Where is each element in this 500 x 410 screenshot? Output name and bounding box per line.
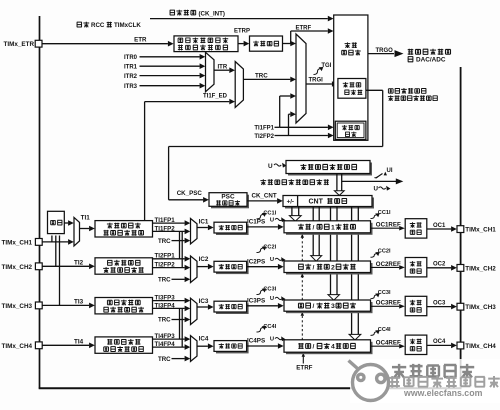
- block CNT counter: [285, 198, 374, 209]
- svg-text:U: U: [270, 296, 274, 302]
- svg-text:IC2: IC2: [199, 256, 209, 263]
- svg-text:RCC: RCC: [91, 22, 105, 29]
- wire CK_INT into trigger controller: [150, 18, 328, 20]
- mux trigger input selector: [296, 34, 306, 123]
- svg-text:TIMx_CH3: TIMx_CH3: [2, 303, 33, 310]
- svg-text:U: U: [270, 257, 274, 263]
- label to other timers: [408, 49, 414, 55]
- wire XOR inputs from CH1 CH2 CH3: [51, 236, 53, 242]
- pin TIMx_CH2 output: [457, 265, 464, 272]
- svg-text:IC1: IC1: [199, 218, 209, 225]
- svg-text:IC1PS: IC1PS: [247, 219, 265, 226]
- mux ITR selector: [206, 52, 215, 91]
- svg-text:IC3: IC3: [199, 298, 209, 305]
- svg-text:(CK_INT): (CK_INT): [199, 10, 225, 17]
- wire ETRF into trigger mux: [289, 43, 291, 45]
- svg-text:TIMx_CH1: TIMx_CH1: [465, 227, 496, 234]
- block output control 2: [405, 258, 427, 277]
- svg-text:OC4REF: OC4REF: [376, 340, 401, 347]
- wire ETRF into CCR4: [302, 356, 304, 363]
- block IC3 prescaler: [216, 303, 249, 314]
- mux TRC selector: [235, 62, 243, 108]
- svg-text:/: /: [313, 303, 315, 310]
- block input filter and edge detector channel 3: [95, 298, 153, 314]
- svg-text:OC2REF: OC2REF: [376, 261, 401, 268]
- wire CH1 direct to mux: [42, 241, 68, 243]
- block encoder interface U3: [335, 121, 366, 139]
- svg-text:TI1F_ED: TI1F_ED: [203, 94, 228, 100]
- svg-text:4: 4: [331, 344, 335, 351]
- svg-text:UI: UI: [387, 168, 393, 174]
- svg-text:TIMx_CH1: TIMx_CH1: [2, 239, 33, 246]
- block capture compare register 3: [286, 302, 373, 313]
- svg-text:ITR2: ITR2: [124, 74, 138, 80]
- svg-text:TRC: TRC: [158, 238, 171, 245]
- svg-text:ITR1: ITR1: [124, 65, 138, 71]
- svg-text:TRC: TRC: [158, 277, 171, 284]
- label reset enable up down count: [388, 89, 393, 93]
- svg-text:TIMx_ETR: TIMx_ETR: [4, 41, 35, 48]
- block capture compare register 4: [286, 342, 373, 354]
- watermark elecfans logo circle: [349, 361, 389, 401]
- svg-text:IC4PS: IC4PS: [247, 338, 265, 345]
- svg-text:/: /: [313, 224, 315, 231]
- label stop clear up down: [260, 179, 266, 185]
- block IC2 prescaler: [216, 263, 249, 274]
- svg-text:TIMx_CH2: TIMx_CH2: [465, 265, 496, 272]
- svg-text:IC3PS: IC3PS: [247, 297, 265, 304]
- watermark overlay text: [389, 376, 400, 388]
- watermark brand text: [392, 364, 406, 378]
- svg-text:TIMx_CH4: TIMx_CH4: [465, 343, 496, 350]
- svg-text:ETRF: ETRF: [296, 364, 312, 371]
- block XOR gate: [48, 211, 65, 233]
- svg-text:TI1FP1: TI1FP1: [254, 126, 274, 132]
- wire ETRF net: [283, 43, 291, 45]
- svg-text:TIMx_CH4: TIMx_CH4: [2, 343, 33, 350]
- wire dashed compare feedback CCR2 to CCR1: [301, 238, 303, 262]
- svg-text:OC3: OC3: [433, 300, 446, 306]
- svg-text:1: 1: [331, 224, 335, 231]
- svg-text:TI4: TI4: [74, 338, 84, 345]
- svg-text:ITR: ITR: [218, 64, 228, 70]
- svg-text:TRC: TRC: [255, 72, 268, 79]
- svg-text:CK_PSC: CK_PSC: [177, 190, 203, 197]
- svg-text:ITR3: ITR3: [124, 84, 138, 90]
- block IC1 prescaler: [216, 224, 249, 235]
- block polarity selection edge detector prescaler: [174, 36, 238, 52]
- block input filter and edge detector channel 1: [95, 221, 153, 237]
- svg-text:U: U: [374, 186, 379, 193]
- wire TI1F_ED: [144, 102, 146, 221]
- svg-text:TI2: TI2: [74, 259, 84, 266]
- block input filter and edge detector channel 2: [95, 258, 153, 274]
- wire ARR to CNT hollow arrow: [336, 174, 338, 191]
- pin TIMx_CH1 output: [457, 226, 464, 233]
- block trigger controller U1: [334, 15, 368, 140]
- svg-text:TI2FP2: TI2FP2: [254, 134, 274, 140]
- svg-text:TGI: TGI: [321, 63, 331, 69]
- mux IC4 input selector: [191, 336, 198, 362]
- wire bottom frame rail: [39, 387, 462, 389]
- wire crossover TI3FP4 TI4FP3 between rows 3-4: [179, 308, 181, 339]
- block output control 3: [405, 296, 427, 315]
- label TIMxCLK from RCC: [77, 22, 82, 27]
- svg-text:IC2PS: IC2PS: [247, 258, 265, 265]
- mux IC2 input selector: [191, 256, 198, 283]
- svg-text:OC1: OC1: [433, 223, 446, 229]
- svg-text:TIMx_CH2: TIMx_CH2: [2, 264, 33, 271]
- svg-text:ITR0: ITR0: [124, 55, 138, 61]
- block slave mode controller U2: [338, 79, 366, 99]
- block PSC prescaler: [211, 195, 249, 209]
- svg-text:U: U: [270, 336, 274, 342]
- svg-text:ETRP: ETRP: [234, 29, 250, 35]
- svg-text:TI1: TI1: [81, 215, 91, 222]
- svg-text:U: U: [268, 163, 273, 170]
- svg-text:/: /: [313, 264, 315, 271]
- wire crossover TI1FP2 TI2FP1 between rows 1-2: [179, 231, 181, 258]
- block output control 4: [405, 335, 427, 354]
- svg-text:DAC/ADC: DAC/ADC: [416, 57, 446, 64]
- label to DAC ADC: [408, 57, 413, 62]
- svg-text:TIMxCLK: TIMxCLK: [114, 22, 141, 29]
- wire CNT to CCR3 hollow arrow: [330, 207, 332, 295]
- watermark white backing: [350, 359, 500, 403]
- svg-text:U: U: [270, 217, 274, 223]
- wire CNT to CCR1 hollow arrow: [291, 207, 293, 216]
- svg-text:CC3I: CC3I: [378, 290, 391, 296]
- wire CNT to CCR2 hollow arrow: [312, 207, 314, 256]
- mux IC1 input selector: [191, 219, 198, 244]
- pin TIMx_CH4 output: [457, 342, 464, 349]
- svg-text:OC4: OC4: [433, 339, 446, 345]
- wire dashed compare feedback CCR4 to CCR3: [301, 316, 303, 341]
- svg-text:TRGI: TRGI: [309, 77, 324, 83]
- wire XOR output to mux: [64, 222, 68, 224]
- svg-text:+/-: +/-: [287, 199, 294, 206]
- block capture compare register 1: [286, 223, 373, 235]
- svg-text:PSC: PSC: [221, 193, 235, 200]
- mux IC3 input selector: [191, 298, 198, 324]
- svg-text:/: /: [313, 344, 315, 351]
- svg-text:CC2I: CC2I: [378, 249, 391, 255]
- svg-text:CNT: CNT: [309, 199, 324, 206]
- svg-text:www.elecfans.com: www.elecfans.com: [403, 388, 483, 398]
- svg-text:OC3REF: OC3REF: [376, 300, 401, 307]
- wire U event right arrow: [342, 180, 397, 182]
- wire CNT to CCR4 hollow arrow: [351, 207, 353, 335]
- svg-text:IC4: IC4: [199, 335, 209, 342]
- svg-text:TRC: TRC: [158, 317, 171, 324]
- wire left frame rail: [39, 16, 41, 389]
- pin TIMx_CH3 output: [457, 303, 464, 310]
- wire CK path from slave controller to PSC: [169, 146, 383, 148]
- wire slave controller output to clock path: [366, 89, 383, 91]
- wire right frame rail: [460, 67, 462, 388]
- svg-text:OC1REF: OC1REF: [376, 222, 401, 229]
- block auto-reload register: [288, 163, 372, 176]
- svg-text:CK_CNT: CK_CNT: [252, 193, 277, 200]
- svg-text:CC4I: CC4I: [378, 327, 391, 333]
- svg-text:TIMx_CH3: TIMx_CH3: [465, 304, 496, 311]
- label internal clock CK_INT: [170, 10, 175, 15]
- block input filter and edge detector channel 4: [95, 337, 153, 353]
- block IC4 prescaler: [216, 343, 249, 354]
- wire dashed compare feedback CCR3 to CCR2: [301, 277, 303, 300]
- svg-text:TI3: TI3: [74, 298, 84, 305]
- pin square TIMx_ETR: [35, 40, 42, 47]
- svg-text:3: 3: [331, 303, 335, 310]
- block ETR input filter: [250, 36, 283, 51]
- svg-text:OC2: OC2: [433, 262, 446, 268]
- block output control 1: [405, 219, 427, 238]
- block capture compare register 2: [286, 263, 373, 275]
- svg-text:CC1I: CC1I: [378, 210, 391, 216]
- svg-text:TRC: TRC: [158, 356, 171, 363]
- svg-text:ETR: ETR: [134, 37, 147, 44]
- svg-text:2: 2: [331, 264, 335, 271]
